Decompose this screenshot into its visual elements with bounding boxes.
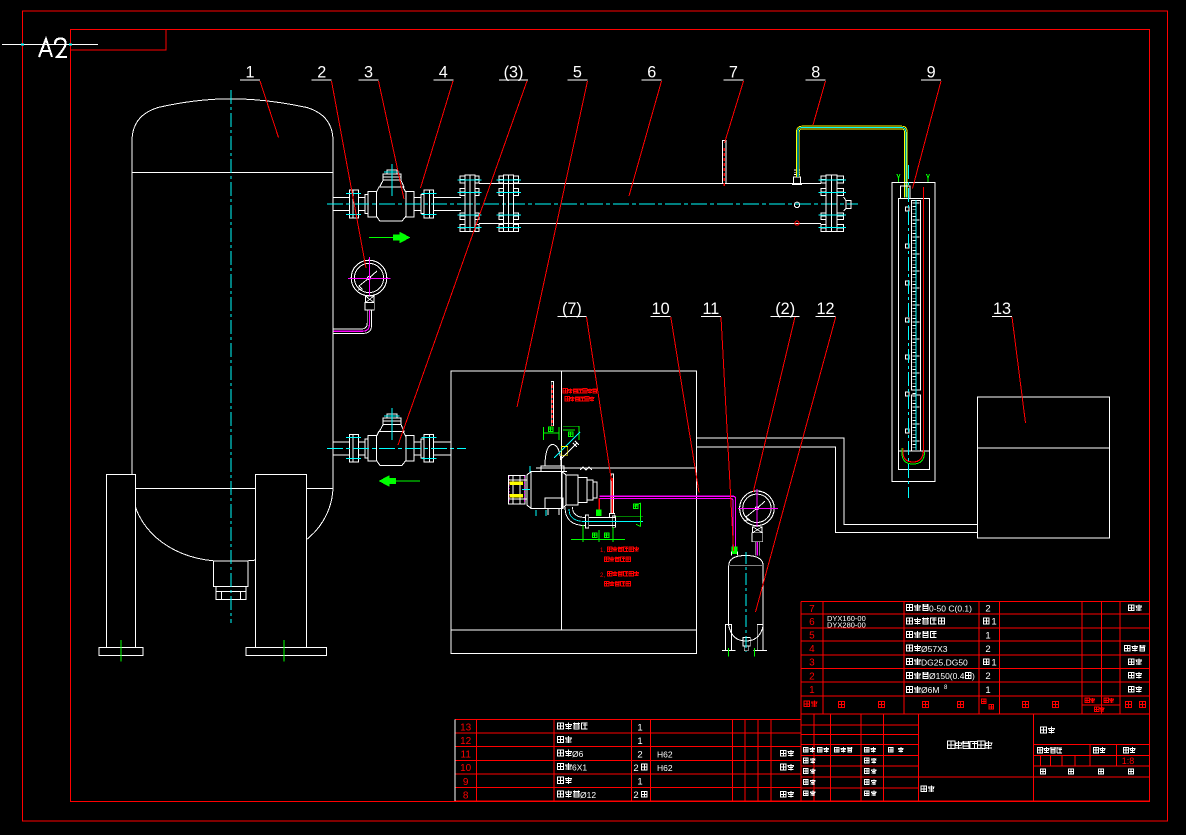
svg-text:3: 3 — [809, 658, 815, 669]
BOM row1 — [906, 686, 921, 693]
BOM row2 — [906, 672, 929, 679]
svg-text:7: 7 — [809, 604, 815, 615]
copper pipe 10 — [599, 496, 735, 547]
svg-text:6X1: 6X1 — [572, 763, 587, 773]
test chamber divider — [561, 371, 563, 630]
relief valve assembly — [509, 476, 525, 504]
A2 sheet mark text — [39, 39, 52, 57]
svg-text:Ø12: Ø12 — [580, 790, 596, 800]
mark row labels — [1037, 747, 1062, 753]
svg-text:9: 9 — [463, 777, 469, 788]
separator gauge fitting — [753, 527, 763, 533]
flow arrow right — [369, 237, 399, 239]
leader 10 — [671, 317, 699, 493]
bottom row8 — [557, 790, 580, 797]
signature grid labels — [803, 747, 815, 753]
corner notch rectangle — [71, 30, 167, 51]
svg-text:13: 13 — [460, 722, 472, 733]
tube vent circle — [794, 202, 799, 207]
A2 sheet mark line — [2, 44, 98, 46]
svg-text:H62: H62 — [657, 750, 673, 760]
gauge 2 fitting — [366, 296, 375, 303]
thermometer 7b in box — [611, 474, 613, 514]
svg-text:): ) — [972, 671, 975, 681]
svg-text:11: 11 — [702, 300, 719, 318]
flange pair B — [499, 176, 504, 183]
separator gauge 2b — [740, 491, 775, 526]
vessel nozzle lower — [333, 441, 349, 443]
bottom row10 — [557, 763, 572, 770]
separator centerline — [745, 552, 747, 652]
red note top — [563, 389, 597, 394]
BOM table grid — [801, 602, 1150, 715]
title block grid — [801, 714, 1150, 801]
leader 7 — [725, 81, 744, 143]
test tube item 6 — [479, 183, 821, 185]
svg-text:Ø57X3: Ø57X3 — [921, 644, 948, 654]
material label — [921, 786, 935, 793]
svg-text:2: 2 — [985, 604, 990, 615]
svg-text:2: 2 — [985, 671, 990, 682]
manometer green clips — [897, 174, 900, 182]
fitting 11 green — [732, 547, 738, 554]
svg-text:1: 1 — [991, 657, 996, 668]
pipe run lower line — [697, 447, 978, 533]
svg-text:13: 13 — [993, 300, 1011, 318]
vessel centerline — [230, 90, 232, 623]
svg-text:H62: H62 — [657, 763, 673, 773]
leader 11 — [721, 317, 734, 551]
bottom row11 — [557, 750, 572, 757]
bottom row12 — [557, 736, 572, 743]
vessel nozzle upper — [333, 197, 349, 199]
pipe valve to box lower — [433, 441, 450, 443]
svg-text:2: 2 — [637, 750, 642, 761]
leader 1 — [260, 81, 279, 138]
vessel leg foot green ticks — [120, 640, 122, 662]
code label — [1040, 727, 1055, 734]
test chamber base band — [451, 630, 697, 653]
vessel bottom head — [132, 488, 333, 561]
leader 6 — [629, 81, 662, 196]
svg-text:1: 1 — [637, 723, 642, 734]
svg-text:2: 2 — [317, 64, 326, 82]
bottom row13 — [557, 723, 587, 730]
svg-text:Ø6: Ø6 — [572, 749, 584, 759]
svg-text:2,: 2, — [600, 573, 605, 579]
tube drain circle red — [795, 221, 799, 225]
svg-text:12: 12 — [460, 736, 472, 747]
BOM header texts — [804, 701, 818, 708]
test chamber shelf line — [536, 467, 697, 469]
green dim right — [616, 503, 644, 526]
title text — [947, 741, 992, 749]
outlet pipe — [586, 515, 589, 528]
oil tank 13 — [978, 397, 1110, 538]
vessel 1 body — [132, 99, 333, 173]
svg-text:(7): (7) — [562, 300, 582, 318]
svg-text:(2): (2) — [775, 300, 795, 318]
pipe run upper line — [697, 438, 978, 525]
flow arrow left — [390, 480, 420, 482]
leader 3 — [379, 81, 405, 199]
sensor on outlet pipe — [596, 509, 602, 516]
pipe 8 fitting — [794, 177, 801, 185]
svg-text:4: 4 — [809, 644, 815, 655]
svg-text:Ø6M: Ø6M — [921, 685, 939, 695]
leader 12 — [756, 317, 836, 612]
BOM row5 — [906, 631, 936, 638]
thermometer 7 — [723, 141, 726, 185]
svg-text:DG25.DG50: DG25.DG50 — [921, 658, 968, 668]
separator inlet nozzle — [731, 552, 733, 556]
vessel right leg — [255, 475, 306, 648]
BOM row4 — [906, 645, 921, 652]
gauge 2 pipe — [334, 310, 370, 331]
svg-text:0-50 C(0.1): 0-50 C(0.1) — [929, 603, 972, 613]
BOM row7 — [906, 604, 929, 611]
separator 12 vessel — [729, 556, 763, 567]
svg-text:1:8: 1:8 — [1122, 756, 1135, 766]
separator drain — [743, 638, 750, 646]
svg-text:10: 10 — [652, 300, 670, 318]
svg-text:10: 10 — [460, 763, 472, 774]
BOM row3 — [906, 658, 921, 665]
manometer 9 outer — [892, 182, 935, 481]
svg-text:6: 6 — [647, 64, 656, 82]
pipe valve to tube upper — [433, 197, 461, 199]
thermometer top in box — [551, 382, 553, 426]
outlet elbow — [565, 507, 586, 526]
pressure gauge 2 at vessel — [351, 260, 387, 296]
leader 2b — [753, 317, 795, 492]
svg-text:3: 3 — [364, 64, 373, 82]
manometer scale ticks — [912, 203, 919, 448]
svg-text:5: 5 — [573, 64, 582, 82]
svg-text:1: 1 — [637, 736, 642, 747]
centerline upper line — [327, 203, 858, 205]
manometer red tube — [903, 187, 924, 462]
pipe 8 yellow — [798, 128, 906, 198]
vessel left leg — [106, 475, 135, 648]
flange pair A — [460, 176, 465, 183]
manometer green u-bend — [902, 448, 925, 464]
leader 7b — [587, 317, 612, 481]
svg-text:1,: 1, — [600, 548, 605, 554]
separator foot ticks — [728, 648, 730, 657]
svg-text:1: 1 — [985, 685, 990, 696]
svg-text:2: 2 — [809, 671, 815, 682]
tube end cap — [844, 197, 846, 211]
leader 13 — [1012, 317, 1026, 423]
svg-text:Ø150(0.4: Ø150(0.4 — [929, 671, 965, 681]
leader 3b — [398, 81, 527, 445]
separator legs — [726, 624, 732, 650]
test chamber box — [451, 371, 697, 630]
svg-text:1: 1 — [245, 64, 254, 82]
bottom table grid — [455, 720, 801, 802]
svg-text:1: 1 — [809, 685, 815, 696]
svg-text:4: 4 — [439, 64, 448, 82]
vessel bottom nozzle — [214, 561, 249, 587]
svg-text:DYX280-00: DYX280-00 — [827, 620, 866, 629]
svg-text:8: 8 — [463, 790, 469, 801]
sheet row labels — [1040, 769, 1045, 774]
manometer 9 inner — [898, 199, 929, 470]
svg-text:6: 6 — [809, 617, 815, 628]
svg-text:1: 1 — [637, 777, 642, 788]
svg-text:9: 9 — [927, 64, 936, 82]
valve 3 upper — [346, 164, 437, 221]
leader 5 — [517, 81, 588, 407]
manometer centerline — [908, 165, 910, 498]
flange pair C right end — [821, 176, 826, 183]
svg-text:2: 2 — [633, 790, 638, 801]
centerline lower line — [327, 447, 466, 449]
manometer scale numbers — [906, 207, 910, 211]
leader 2 — [332, 81, 367, 268]
svg-text:5: 5 — [809, 631, 815, 642]
svg-text:(3): (3) — [504, 64, 524, 82]
green dim bonnet — [544, 427, 559, 440]
svg-text:12: 12 — [816, 300, 834, 318]
svg-text:1: 1 — [991, 617, 996, 628]
svg-text:8: 8 — [811, 64, 820, 82]
green dim bottom — [571, 525, 625, 542]
leader 4 — [421, 81, 454, 188]
svg-text:2: 2 — [633, 763, 638, 774]
svg-text:11: 11 — [461, 750, 472, 761]
manometer scale strip — [912, 201, 921, 390]
svg-text:2: 2 — [985, 644, 990, 655]
cyan intersection dots — [21, 44, 24, 46]
leader 9 — [913, 81, 942, 189]
svg-text:1: 1 — [985, 631, 990, 642]
valve 3 lower — [346, 408, 437, 465]
leader 8 — [813, 81, 826, 125]
svg-text:7: 7 — [729, 64, 738, 82]
bottom row9 — [557, 777, 572, 784]
manometer top fitting — [901, 186, 911, 199]
